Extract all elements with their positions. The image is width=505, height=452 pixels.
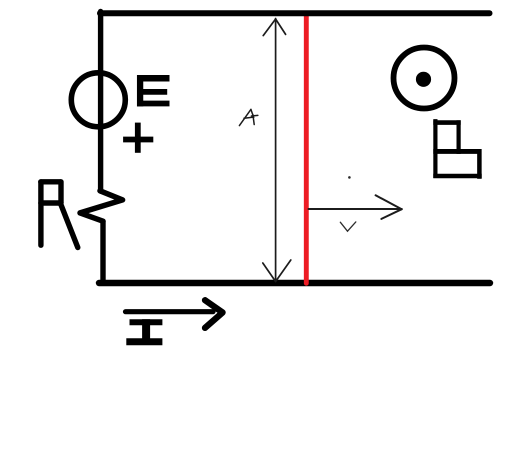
label E	[137, 75, 170, 106]
label I	[126, 319, 162, 343]
wire top rail	[100, 10, 490, 16]
battery E1 (EMF source circle)	[71, 73, 125, 127]
plus polarity mark	[123, 123, 153, 153]
current arrow I	[126, 300, 223, 328]
label B (block letter)	[433, 119, 481, 179]
wire left vertical (top segment through source)	[98, 12, 103, 192]
label A	[239, 109, 257, 125]
field symbol B (circle with dot, out of page)	[394, 48, 455, 109]
rod (red sliding bar)	[304, 15, 309, 283]
velocity arrow v	[309, 195, 402, 219]
resistor R1 zigzag	[80, 191, 123, 221]
label R	[41, 182, 78, 248]
label v	[340, 222, 356, 231]
wire left vertical (bottom segment)	[100, 222, 105, 283]
dimension arrow A (vertical double-headed)	[263, 19, 291, 282]
wire bottom rail	[99, 280, 490, 286]
stray dot mark	[348, 176, 351, 179]
